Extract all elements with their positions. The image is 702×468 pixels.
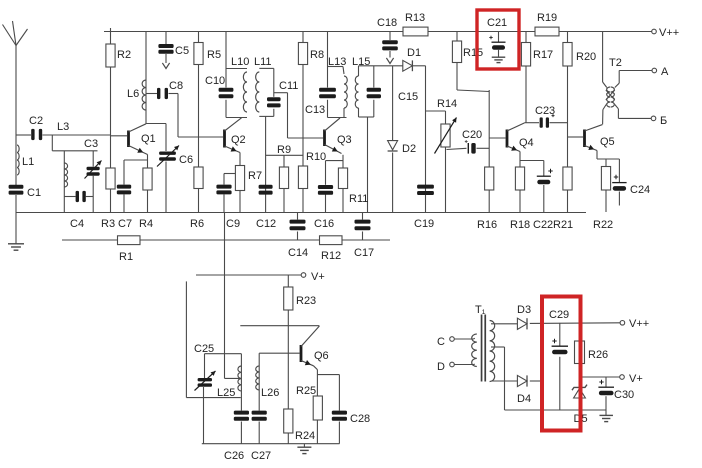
svg-text:R3: R3	[101, 218, 115, 230]
label C24	[630, 184, 650, 196]
svg-text:Q3: Q3	[337, 134, 352, 146]
transistor Q1	[129, 124, 148, 155]
svg-text:C1: C1	[27, 187, 41, 199]
label V+ supply	[629, 373, 643, 385]
wire tank3 down link	[265, 116, 267, 212]
label L1	[22, 156, 34, 168]
polarity mark C23	[552, 114, 555, 117]
svg-text:V+: V+	[311, 271, 325, 283]
wire C20 out	[477, 147, 490, 149]
ground below C21	[492, 57, 506, 62]
arrow C6 variable	[157, 146, 179, 167]
label R15	[463, 47, 483, 59]
ground below C30	[599, 415, 613, 421]
svg-text:R5: R5	[207, 49, 221, 61]
resistor R18 body	[515, 167, 524, 190]
svg-text:R6: R6	[190, 218, 204, 230]
svg-text:Q1: Q1	[141, 133, 156, 145]
label C23	[535, 105, 555, 117]
wire T1 secondary stubs	[474, 338, 475, 364]
antenna	[3, 21, 28, 46]
label R10	[306, 151, 326, 163]
label C7	[118, 218, 132, 230]
resistor R26 body	[575, 341, 585, 364]
svg-text:T₁: T₁	[475, 304, 486, 316]
label C1	[27, 187, 41, 199]
label C5	[175, 45, 189, 57]
wire tank5 down leg	[367, 117, 369, 213]
wire Q1 collector ext	[146, 123, 166, 125]
capacitor C8	[157, 88, 168, 99]
transformer T2 winding right arcs	[611, 87, 615, 107]
resistor R23 body	[284, 287, 293, 310]
svg-text:T2: T2	[609, 57, 622, 69]
wire supply common rail	[505, 409, 607, 411]
terminal A	[652, 68, 657, 73]
svg-text:C19: C19	[414, 218, 434, 230]
wire tank2 top rail	[226, 68, 247, 70]
capacitor C24	[612, 175, 626, 191]
svg-text:L11: L11	[254, 56, 272, 68]
arrow C3 variable	[85, 161, 102, 179]
wire C17 leg	[362, 213, 364, 241]
transformer T1 secondary winding	[472, 334, 477, 367]
svg-text:L13: L13	[328, 56, 346, 68]
label L3	[57, 121, 69, 133]
svg-text:Б: Б	[660, 115, 667, 127]
wire R9 R10 node	[266, 154, 303, 156]
wire V+ output line	[580, 376, 620, 378]
diode D1	[403, 60, 413, 71]
wire L26 branch	[258, 353, 260, 444]
label R26	[588, 349, 608, 361]
capacitor C21	[489, 32, 505, 57]
wire L13 stub	[343, 67, 344, 118]
transistor Q5	[585, 125, 603, 151]
wire T1 primary bottom lead	[491, 380, 517, 382]
inductor L11	[256, 72, 260, 112]
resistor R6 body	[194, 167, 203, 189]
wire D terminal lead	[454, 364, 473, 366]
svg-text:C21: C21	[487, 17, 507, 29]
svg-text:Q4: Q4	[519, 137, 534, 149]
wire R5 R6 bias line	[198, 32, 200, 213]
svg-text:C11: C11	[279, 80, 298, 92]
wire C15 branch	[373, 66, 375, 117]
capacitor C13	[319, 88, 336, 98]
label C22	[533, 219, 553, 231]
capacitor C27	[252, 411, 267, 421]
svg-text:D1: D1	[407, 47, 421, 59]
label R21	[553, 219, 573, 231]
resistor R22 body	[601, 167, 610, 191]
capacitor C22	[537, 169, 553, 185]
label C11	[279, 80, 298, 92]
terminal V++ supply	[620, 321, 625, 326]
svg-text:C26: C26	[224, 450, 244, 462]
wire Q3 emitter leg	[342, 155, 344, 213]
svg-text:R25: R25	[296, 385, 316, 397]
ground below R24	[297, 447, 311, 453]
svg-text:V++: V++	[659, 27, 679, 39]
wire L3 branch	[63, 151, 65, 213]
wire R15 leg	[456, 32, 458, 91]
wire tank5 bottom rail	[359, 116, 374, 118]
wire tank4 left line	[327, 32, 329, 118]
wire Q4 base	[489, 137, 505, 139]
wire R26 leg	[579, 323, 581, 377]
wire R22 leg	[605, 159, 607, 212]
label Q2	[231, 134, 246, 146]
svg-text:D3: D3	[517, 304, 531, 316]
resistor R11 body	[338, 168, 347, 189]
terminal C	[450, 337, 455, 342]
svg-text:R7: R7	[248, 170, 262, 182]
wire C14 leg	[297, 213, 299, 241]
wire tank4 bottom rail	[328, 117, 347, 119]
wire C22 stub	[520, 161, 544, 213]
resistor R21 body	[563, 167, 572, 190]
svg-text:C28: C28	[350, 413, 370, 425]
wire lower return bus	[62, 239, 390, 241]
svg-text:C13: C13	[305, 104, 325, 116]
arrow R14 wiper	[435, 118, 457, 154]
terminal V++ top	[652, 29, 657, 34]
label R13	[405, 12, 425, 24]
resistor R4 body	[143, 168, 152, 190]
capacitor C3	[87, 167, 100, 176]
wire D4 output	[530, 380, 541, 382]
label D4	[517, 393, 531, 405]
svg-text:C30: C30	[614, 389, 634, 401]
wire Q1 emitter leg	[147, 155, 149, 213]
wire T2 primary drop	[602, 32, 604, 83]
wire T2 secondary top	[615, 71, 652, 88]
svg-text:D2: D2	[402, 143, 416, 155]
resistor R7 body	[235, 166, 244, 191]
label C18	[377, 17, 397, 29]
resistor R2 body	[106, 44, 115, 67]
label R18	[510, 219, 530, 231]
label D5	[574, 413, 588, 425]
svg-text:Q2: Q2	[231, 134, 246, 146]
wire R9 leg	[283, 155, 285, 212]
capacitor C23	[540, 117, 549, 127]
svg-text:C4: C4	[70, 218, 84, 230]
wire R25 C28 stub	[317, 374, 339, 376]
wire D2 leg	[392, 66, 394, 213]
label R7	[248, 170, 262, 182]
label Q3	[337, 134, 352, 146]
highlight box around C21	[477, 10, 519, 69]
wire R15 jog	[457, 90, 489, 92]
label V+ osc	[311, 271, 325, 283]
label L10	[231, 56, 249, 68]
label C13	[305, 104, 325, 116]
capacitor C18	[382, 40, 398, 50]
wire C29 leg	[559, 323, 561, 410]
svg-text:Q6: Q6	[314, 350, 329, 362]
label R1	[119, 251, 133, 263]
svg-text:D4: D4	[517, 393, 531, 405]
zener diode D5	[572, 385, 587, 398]
capacitor C5	[158, 44, 173, 54]
diode D3	[517, 318, 527, 329]
label C27	[251, 450, 271, 462]
wire tank2 left line	[225, 32, 227, 118]
label Q1	[141, 133, 156, 145]
svg-text:C10: C10	[205, 75, 225, 87]
wire top supply rail	[104, 31, 654, 33]
wire ground bus	[16, 212, 586, 214]
svg-text:C17: C17	[354, 247, 374, 259]
wire T1 primary top lead	[491, 323, 517, 325]
wire detector line	[359, 65, 426, 67]
label C17	[354, 247, 374, 259]
svg-text:R9: R9	[277, 144, 291, 156]
label R8	[310, 49, 324, 61]
resistor R16 body	[485, 167, 494, 190]
svg-text:C25: C25	[194, 343, 214, 355]
resistor R1 body	[118, 236, 141, 245]
resistor R17 body	[521, 43, 530, 67]
wire tank3 top rail	[259, 67, 274, 69]
label R12	[321, 250, 341, 262]
wire Q6 collector line	[240, 325, 319, 327]
arrow C5 to ground	[162, 63, 169, 69]
inductor L13	[344, 76, 347, 108]
svg-text:R19: R19	[537, 12, 557, 24]
capacitor C25	[198, 378, 212, 387]
wire R14 leg	[445, 111, 447, 213]
svg-text:C9: C9	[226, 218, 240, 230]
label D terminal	[437, 361, 445, 373]
terminal B	[651, 116, 656, 121]
svg-text:C24: C24	[630, 184, 650, 196]
svg-text:R4: R4	[139, 218, 153, 230]
wire Q5 emitter leg	[597, 151, 619, 160]
resistor R20 body	[563, 43, 572, 67]
label V++ supply	[629, 318, 649, 330]
diode D4	[517, 375, 527, 386]
wire C25 leg	[204, 354, 205, 444]
arrow C25 variable	[195, 371, 216, 391]
label T1	[475, 304, 486, 316]
svg-text:R22: R22	[593, 219, 613, 231]
label B	[660, 115, 667, 127]
label R24	[295, 430, 315, 442]
svg-text:R21: R21	[553, 219, 573, 231]
wire Q5 base	[568, 136, 584, 138]
svg-text:C2: C2	[29, 115, 43, 127]
highlight box around C29	[542, 297, 581, 431]
wire R23 R24 line	[287, 275, 289, 444]
label L11	[254, 56, 272, 68]
wire detector output drop	[425, 66, 427, 213]
capacitor C14	[290, 220, 306, 231]
wire Q6 emitter leg	[314, 366, 318, 444]
label R11	[349, 193, 368, 205]
inductor L10	[243, 72, 247, 112]
resistor R10 body	[298, 166, 307, 189]
label R22	[593, 219, 613, 231]
label C16	[314, 218, 334, 230]
resistor R25 body	[313, 396, 322, 420]
label Q4	[519, 137, 534, 149]
label C12	[256, 218, 276, 230]
label C terminal	[437, 336, 445, 348]
capacitor C2	[31, 129, 42, 140]
svg-text:R23: R23	[296, 295, 316, 307]
wire tank1 drop	[51, 135, 53, 151]
capacitor C20	[468, 143, 475, 154]
wire L6 collector branch	[145, 32, 147, 124]
svg-text:C23: C23	[535, 105, 555, 117]
label R4	[139, 218, 153, 230]
label R23	[296, 295, 316, 307]
svg-text:R1: R1	[119, 251, 133, 263]
svg-text:L26: L26	[261, 387, 279, 399]
terminal V+ oscillator	[301, 273, 306, 278]
capacitor C10	[219, 88, 234, 98]
ground main left	[8, 244, 24, 250]
wire C24 leg	[618, 159, 620, 206]
transformer T2 core cross	[606, 90, 615, 100]
svg-text:R12: R12	[321, 250, 341, 262]
svg-text:R20: R20	[576, 51, 596, 63]
label R17	[533, 49, 553, 61]
wire antenna lead	[15, 45, 17, 244]
wire tank3 tap	[274, 93, 288, 138]
svg-text:R26: R26	[588, 349, 608, 361]
resistor R5 body	[194, 43, 203, 65]
label Q6	[314, 350, 329, 362]
capacitor C17	[355, 220, 371, 231]
wire C4 link	[64, 196, 93, 198]
svg-text:R15: R15	[463, 47, 483, 59]
capacitor C28	[332, 411, 347, 421]
wire feedback bracket	[186, 281, 240, 397]
capacitor C1	[9, 185, 24, 195]
label C3	[84, 138, 98, 150]
transistor Q2	[225, 118, 242, 153]
label V++ top	[659, 27, 679, 39]
label A	[661, 66, 669, 78]
resistor R3 body	[106, 168, 115, 189]
wire ground2 stub	[303, 444, 305, 447]
resistor R15 body	[452, 41, 461, 63]
capacitor C26	[234, 411, 249, 421]
wire R17 leg	[525, 32, 527, 123]
svg-text:C12: C12	[256, 218, 276, 230]
diode D2	[388, 141, 398, 151]
resistor R13 body	[403, 27, 428, 36]
svg-text:C7: C7	[118, 218, 132, 230]
label T2	[609, 57, 622, 69]
capacitor C30	[598, 380, 614, 396]
svg-text:C18: C18	[377, 17, 397, 29]
wire Q2 base	[178, 136, 223, 138]
resistor R12 body	[320, 236, 343, 245]
terminal D	[450, 362, 455, 367]
label C15	[398, 91, 418, 103]
svg-text:C: C	[437, 336, 445, 348]
label R9	[277, 144, 291, 156]
capacitor C29	[552, 339, 568, 355]
wire R14 stub	[426, 110, 446, 112]
inductor L26	[256, 366, 259, 390]
capacitor C4	[76, 191, 86, 202]
capacitor C19	[417, 185, 434, 195]
wire R8 R10 bias line	[302, 32, 304, 213]
arrow C18 to detector	[386, 58, 393, 64]
label C10	[205, 75, 225, 87]
label R14	[437, 98, 457, 110]
wire Q4 emitter leg	[519, 152, 521, 213]
label R2	[117, 49, 131, 61]
wire Q6 base	[259, 352, 299, 354]
wire C28 leg	[338, 375, 340, 444]
terminal V+ supply	[620, 375, 625, 380]
resistor R9 body	[279, 167, 288, 189]
wire oscillator feed drop	[225, 213, 242, 379]
wire tank1 top rail	[52, 150, 97, 152]
label L6	[127, 88, 139, 100]
wire L25 branch	[240, 354, 242, 444]
wire C6 branch	[165, 124, 167, 213]
svg-text:C8: C8	[169, 80, 183, 92]
svg-text:D: D	[437, 361, 445, 373]
svg-text:A: A	[661, 66, 669, 78]
wire C11 branch	[273, 68, 275, 116]
wire tank2 bottom rail	[226, 117, 247, 119]
wire Q4 bias line	[488, 90, 490, 213]
wire R14 to C20 link	[447, 148, 467, 149]
svg-text:C16: C16	[314, 218, 334, 230]
resistor R8 body	[298, 43, 307, 65]
svg-text:V+: V+	[629, 373, 643, 385]
wire R2 R3 bias line	[110, 28, 112, 213]
wire C30 leg	[605, 377, 607, 415]
svg-text:C20: C20	[462, 129, 482, 141]
label C26	[224, 450, 244, 462]
wire L15 stub	[358, 66, 360, 117]
svg-text:V++: V++	[629, 318, 649, 330]
label C9	[226, 218, 240, 230]
resistor R14 body	[441, 124, 450, 147]
svg-text:L6: L6	[127, 88, 139, 100]
inductor L25	[238, 366, 241, 391]
wire C8 drop	[177, 94, 179, 138]
svg-text:R17: R17	[533, 49, 553, 61]
wire C5 stub	[165, 32, 167, 64]
label C19	[414, 218, 434, 230]
svg-text:R14: R14	[437, 98, 457, 110]
svg-text:C29: C29	[549, 309, 569, 321]
inductor L6	[142, 80, 146, 110]
wire T2 primary flare	[603, 82, 607, 124]
resistor R24 body	[284, 409, 293, 433]
wire T1 center tap	[491, 347, 505, 410]
svg-text:C27: C27	[251, 450, 271, 462]
label R16	[477, 219, 497, 231]
label C29	[549, 309, 569, 321]
inductor L1	[17, 145, 19, 175]
label C20	[462, 129, 482, 141]
svg-text:L15: L15	[352, 56, 370, 68]
label D2	[402, 143, 416, 155]
wire tank3 bottom rail	[259, 115, 274, 117]
